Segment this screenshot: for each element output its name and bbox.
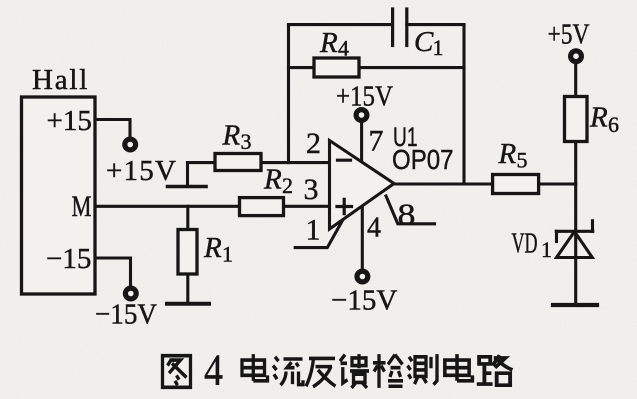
svg-text:R: R <box>589 102 608 134</box>
svg-text:+15V: +15V <box>106 155 177 187</box>
svg-text:R: R <box>319 27 338 59</box>
svg-text:OP07: OP07 <box>392 144 454 175</box>
svg-text:R: R <box>263 164 282 196</box>
svg-text:6: 6 <box>608 112 619 137</box>
svg-text:4: 4 <box>204 346 223 395</box>
svg-text:8: 8 <box>398 197 416 232</box>
svg-text:+15: +15 <box>47 105 92 137</box>
svg-text:4: 4 <box>367 213 381 244</box>
svg-text:3: 3 <box>304 173 319 206</box>
svg-text:R: R <box>203 232 222 264</box>
svg-text:−15: −15 <box>46 243 91 275</box>
svg-text:R: R <box>498 138 517 170</box>
svg-text:R: R <box>222 120 241 152</box>
svg-text:−15V: −15V <box>331 285 397 317</box>
svg-text:5: 5 <box>517 148 528 173</box>
svg-text:7: 7 <box>369 125 384 158</box>
svg-text:−15V: −15V <box>95 299 157 331</box>
svg-text:Hall: Hall <box>32 64 89 96</box>
svg-text:C: C <box>414 26 434 58</box>
svg-text:3: 3 <box>241 129 252 154</box>
svg-text:4: 4 <box>338 36 349 61</box>
svg-text:1: 1 <box>222 242 233 267</box>
svg-text:1: 1 <box>433 35 444 60</box>
svg-text:2: 2 <box>282 173 293 198</box>
svg-text:M: M <box>72 190 92 223</box>
svg-text:1: 1 <box>306 214 321 247</box>
svg-text:VD: VD <box>512 229 538 260</box>
svg-text:1: 1 <box>541 237 552 262</box>
svg-text:2: 2 <box>306 127 321 160</box>
svg-text:+15V: +15V <box>336 81 393 113</box>
svg-text:+5V: +5V <box>548 19 590 51</box>
